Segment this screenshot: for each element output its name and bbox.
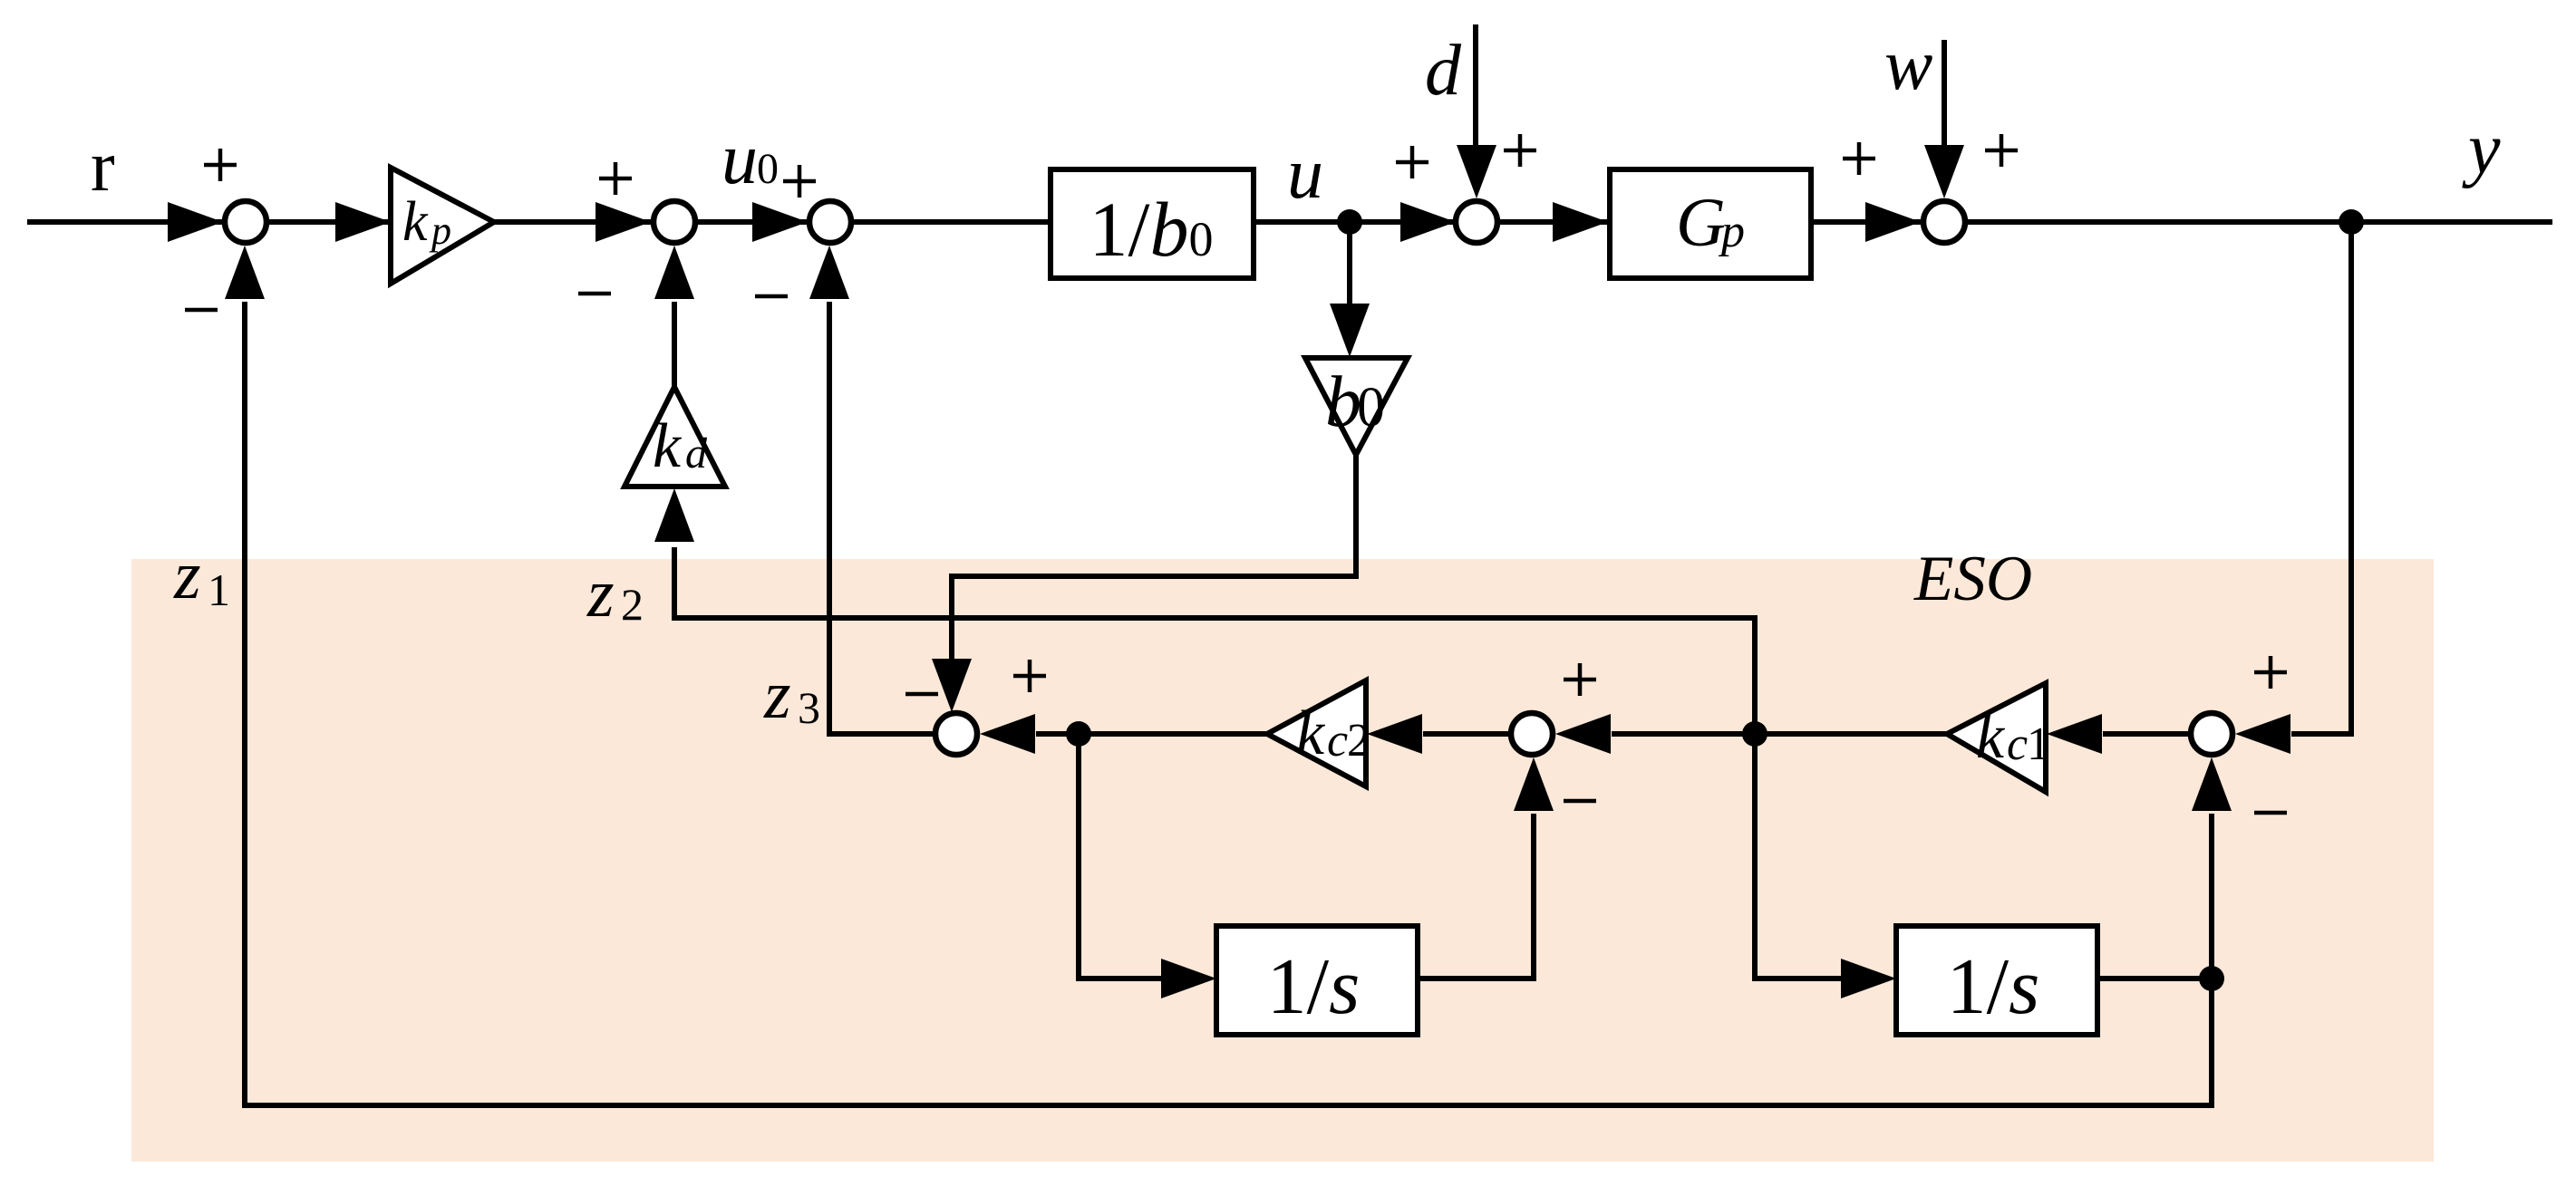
svg-text:2: 2: [621, 579, 644, 630]
svg-text:p: p: [1718, 206, 1745, 257]
svg-text:u: u: [1287, 134, 1323, 214]
svg-text:c: c: [2007, 718, 2028, 770]
svg-text:k: k: [653, 411, 683, 481]
svg-text:u: u: [721, 120, 758, 199]
svg-text:z: z: [173, 537, 201, 613]
svg-text:d: d: [1425, 31, 1462, 111]
svg-text:k: k: [1296, 699, 1326, 768]
svg-text:r: r: [91, 127, 115, 207]
svg-text:z: z: [763, 657, 791, 733]
svg-text:0: 0: [1357, 377, 1385, 439]
svg-text:z: z: [586, 555, 615, 632]
svg-text:1: 1: [208, 564, 230, 615]
svg-text:2: 2: [1347, 715, 1370, 767]
svg-text:p: p: [429, 208, 451, 253]
svg-text:1/s: 1/s: [1267, 943, 1361, 1031]
svg-text:0: 0: [757, 145, 779, 193]
svg-text:w: w: [1884, 25, 1932, 105]
svg-text:1/s: 1/s: [1947, 943, 2040, 1031]
svg-text:ESO: ESO: [1913, 544, 2032, 614]
svg-text:G: G: [1676, 185, 1726, 261]
svg-text:k: k: [402, 191, 429, 253]
svg-text:3: 3: [798, 682, 820, 733]
svg-text:b: b: [1325, 362, 1361, 442]
svg-text:1: 1: [2027, 718, 2050, 770]
svg-text:y: y: [2462, 110, 2501, 189]
svg-text:c: c: [1327, 715, 1348, 767]
svg-text:k: k: [1976, 702, 2006, 772]
svg-text:d: d: [685, 429, 708, 477]
